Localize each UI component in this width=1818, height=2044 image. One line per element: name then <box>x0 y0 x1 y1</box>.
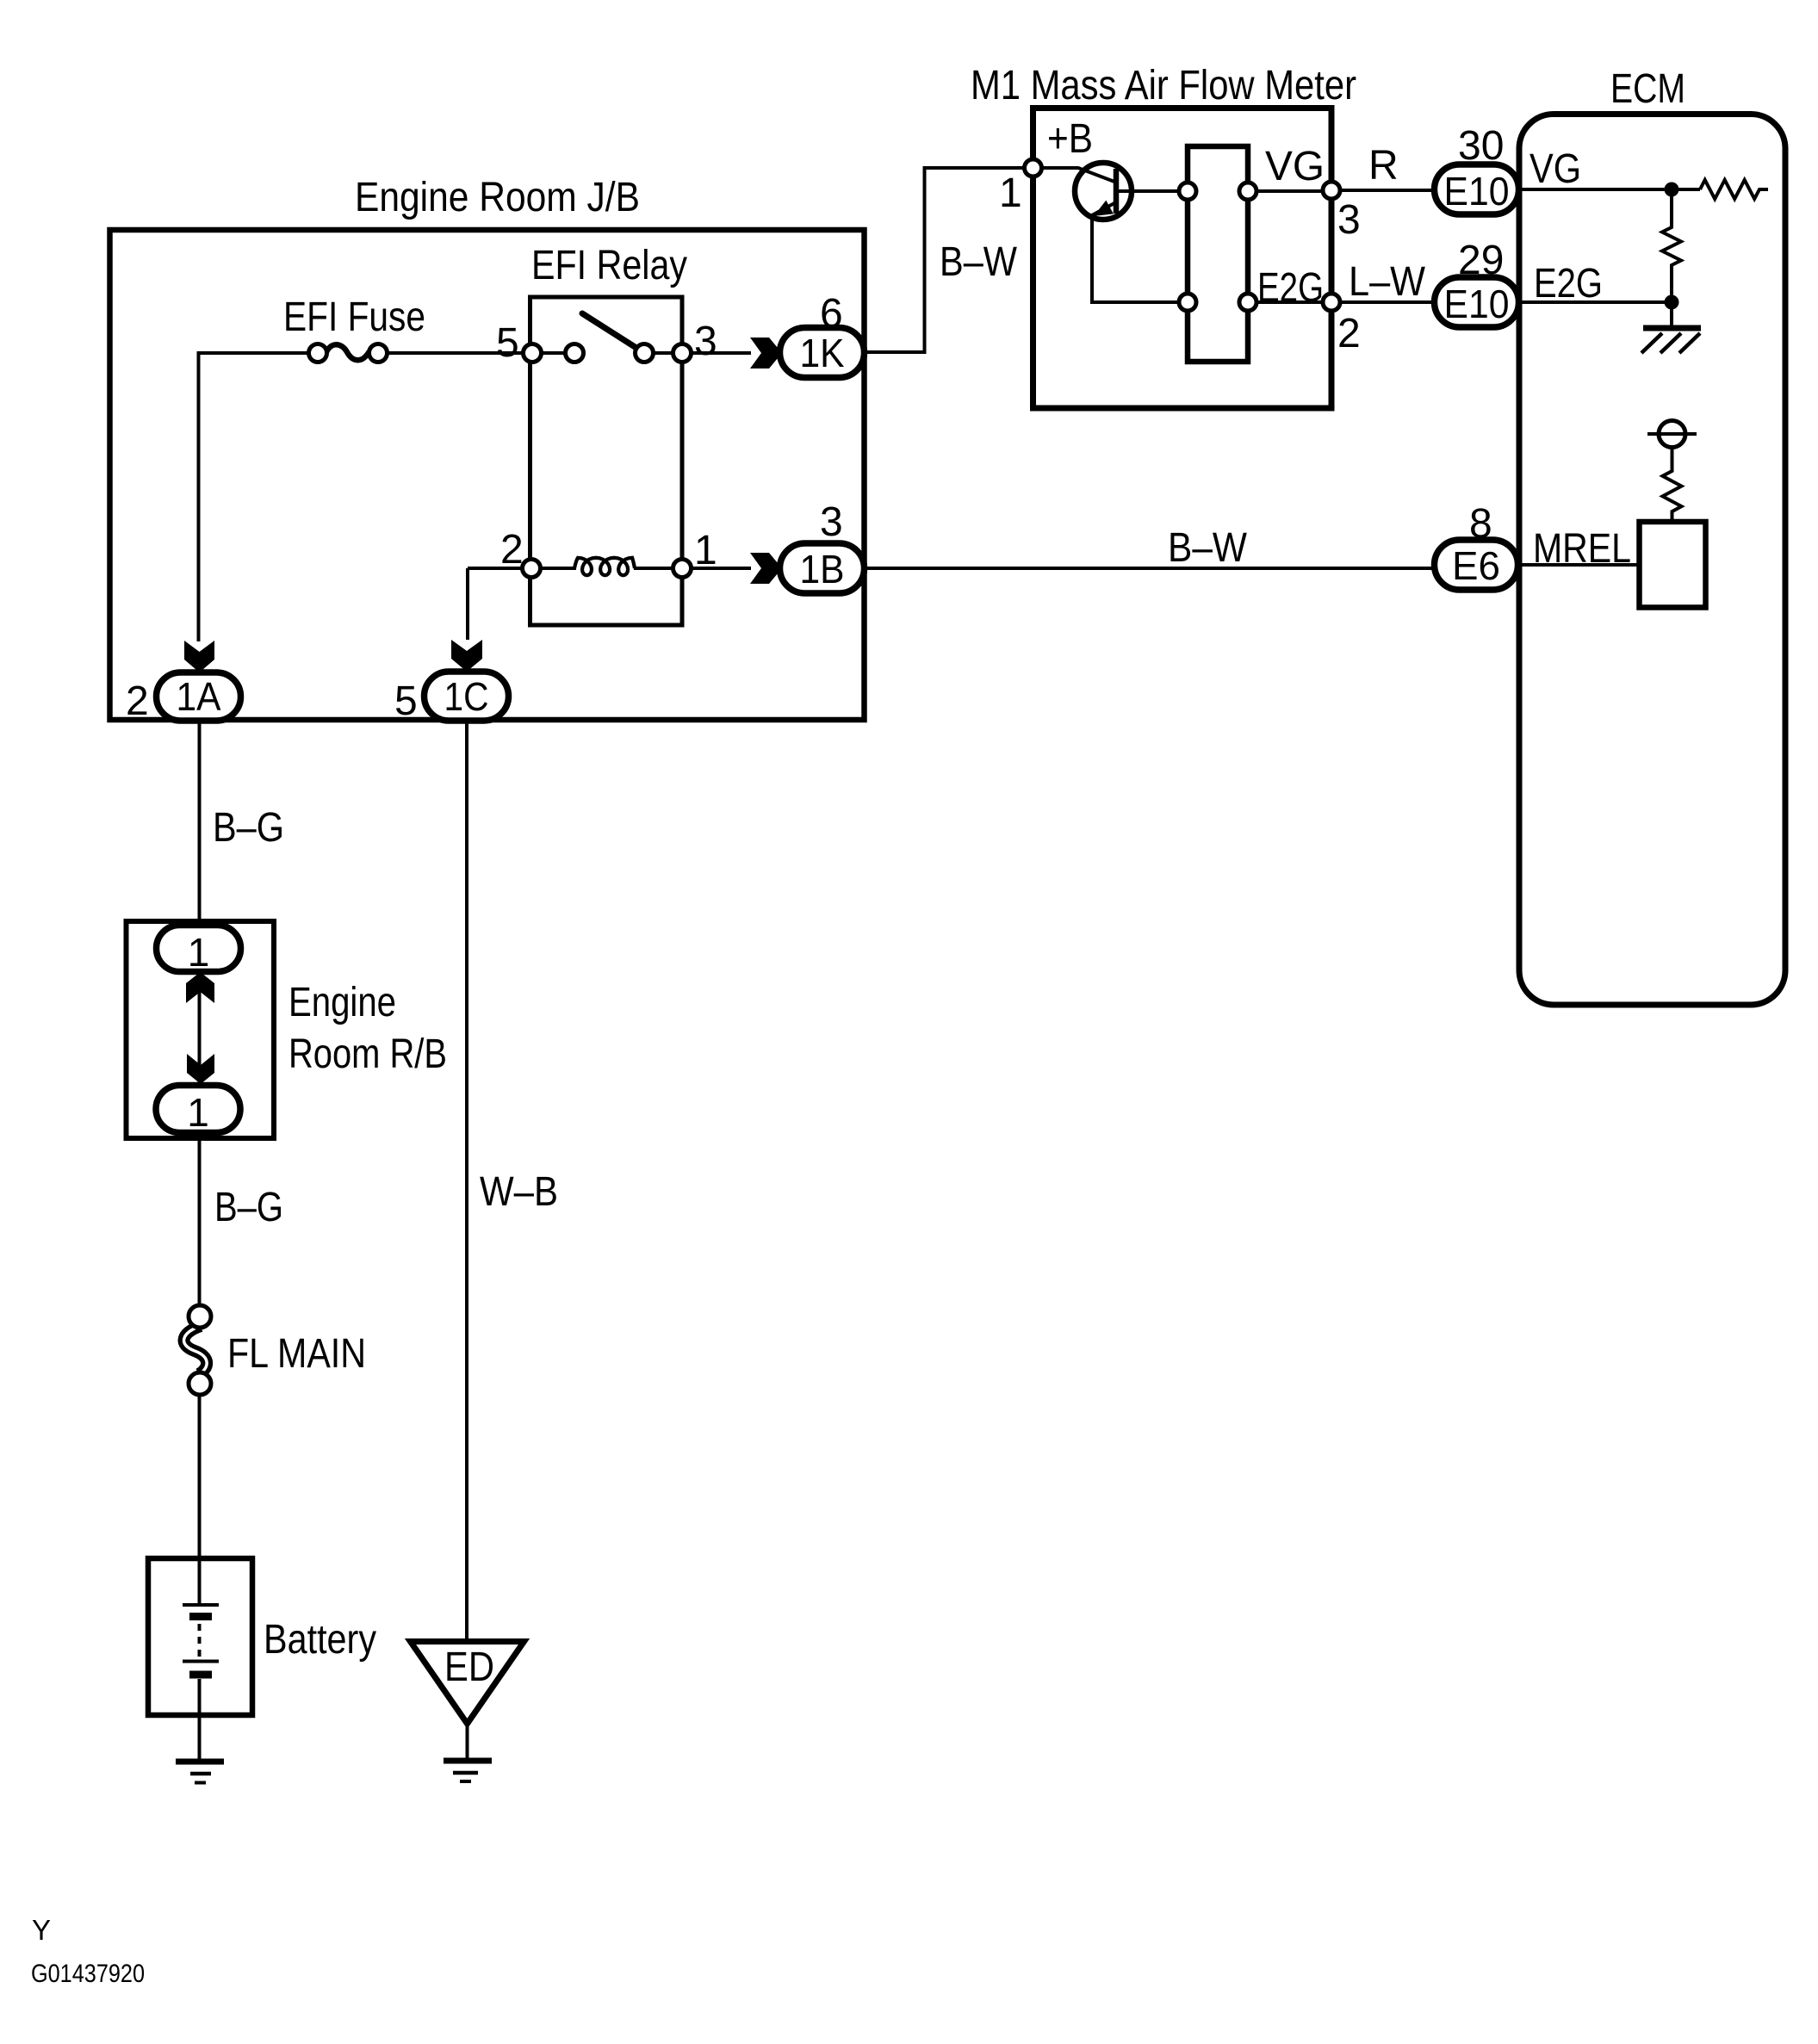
wire: E2G inside ECM <box>1518 300 1672 304</box>
connector E6 <box>1435 540 1518 590</box>
resistor R3 (MREL pull, vertical) <box>1663 448 1682 522</box>
connector 1 (R/B bottom) <box>156 1086 240 1136</box>
svg-text:FL MAIN: FL MAIN <box>227 1331 366 1377</box>
junction node on VG line <box>1665 183 1679 197</box>
transistor Q1 (MAF internal) <box>1041 163 1179 302</box>
svg-text:ECM: ECM <box>1610 66 1685 112</box>
svg-text:Y: Y <box>32 1914 51 1946</box>
svg-text:E10: E10 <box>1444 169 1510 214</box>
connector 1C <box>425 672 509 721</box>
arrow into connector 1B <box>750 553 782 584</box>
MAF +B node circle (pin 1) <box>1025 159 1042 177</box>
svg-text:B–W: B–W <box>1168 525 1248 571</box>
wire: sensing element to VG pin <box>1256 189 1324 193</box>
svg-text:VG: VG <box>1529 146 1581 192</box>
wire: R/B down to FL MAIN <box>198 1138 202 1306</box>
wire: relay coil row <box>468 568 751 640</box>
svg-text:5: 5 <box>496 320 519 366</box>
svg-text:Room R/B: Room R/B <box>289 1031 447 1077</box>
svg-text:M1 Mass Air Flow Meter: M1 Mass Air Flow Meter <box>971 63 1356 108</box>
svg-text:3: 3 <box>820 499 843 545</box>
svg-text:Engine: Engine <box>289 980 396 1025</box>
svg-text:2: 2 <box>126 678 149 724</box>
wire: FL MAIN to battery <box>198 1395 202 1558</box>
junction block box: Engine Room J/B <box>110 175 865 720</box>
arrow down (R/B) <box>187 1054 214 1084</box>
svg-text:L–W: L–W <box>1349 259 1426 305</box>
svg-text:1: 1 <box>694 528 717 573</box>
connector 1K <box>780 328 865 378</box>
svg-text:+B: +B <box>1047 116 1093 162</box>
relay switch blade <box>582 313 639 350</box>
svg-text:W–B: W–B <box>480 1169 558 1215</box>
connector E10 (E2G row) <box>1435 277 1519 327</box>
svg-text:R: R <box>1368 143 1399 189</box>
svg-text:Battery: Battery <box>264 1617 376 1663</box>
svg-text:5: 5 <box>394 678 418 724</box>
fusible link FL MAIN <box>184 1305 366 1395</box>
svg-text:E2G: E2G <box>1534 261 1603 307</box>
relay K1: EFI Relay box <box>531 243 688 625</box>
svg-text:EFI Relay: EFI Relay <box>531 243 687 288</box>
ECM box <box>1519 66 1785 1005</box>
resistor R1 (VG load, horizontal) <box>1700 180 1768 199</box>
wire: E2G to E10 <box>1339 300 1434 304</box>
svg-text:E6: E6 <box>1452 543 1500 588</box>
wire: long B-W from 1B to E6 <box>864 567 1434 570</box>
connector 1B <box>780 543 865 593</box>
relay coil pin circles 2 and 1 <box>523 560 692 578</box>
wire inside R/B <box>198 971 202 1085</box>
wire: sensing element to E2G pin <box>1256 300 1324 304</box>
svg-text:B–W: B–W <box>940 239 1018 285</box>
MAF output pin circles VG / E2G <box>1323 182 1340 311</box>
svg-text:1A: 1A <box>177 674 221 719</box>
wire: relay pin 3 to 1K arrow <box>653 351 751 355</box>
svg-text:1: 1 <box>999 170 1022 216</box>
Engine Room R/B box <box>127 921 448 1138</box>
svg-text:2: 2 <box>500 527 524 573</box>
connector 1 (R/B top) <box>157 926 241 976</box>
svg-text:Engine Room J/B: Engine Room J/B <box>355 175 640 220</box>
connector E10 (VG row) <box>1435 164 1519 214</box>
connector 1A <box>157 672 241 721</box>
svg-text:2: 2 <box>1337 311 1361 356</box>
wire: VG inside ECM <box>1518 188 1700 191</box>
ground (battery) <box>176 1762 224 1783</box>
svg-text:1: 1 <box>187 1090 209 1135</box>
svg-text:3: 3 <box>694 319 717 364</box>
MAF sensing element rectangle <box>1188 146 1248 362</box>
junction node on E2G line <box>1665 295 1679 310</box>
wire: VG to E10 <box>1339 189 1434 192</box>
relay coil L1 <box>574 558 635 575</box>
svg-text:1: 1 <box>188 930 210 975</box>
resistor R2 (VG to E2G, vertical) <box>1662 189 1681 302</box>
relay switch contact circles pins 5 and 3 <box>524 344 692 362</box>
svg-text:3: 3 <box>1337 197 1361 243</box>
arrow into connector 1A <box>184 641 214 672</box>
power symbol (circled bar) <box>1647 421 1697 448</box>
arrow into connector 1K <box>750 338 782 369</box>
svg-text:B–G: B–G <box>213 805 284 851</box>
svg-text:E2G: E2G <box>1257 265 1324 311</box>
wire: B-W riser from 1K to MAF +B <box>864 168 1025 352</box>
wire: 1A down to Engine Room R/B <box>198 721 202 921</box>
fuse F1: EFI Fuse <box>283 294 425 362</box>
svg-text:VG: VG <box>1265 144 1325 189</box>
arrow up (R/B) <box>186 972 214 1003</box>
svg-text:1C: 1C <box>444 674 489 719</box>
svg-text:EFI Fuse: EFI Fuse <box>283 294 425 340</box>
svg-text:ED: ED <box>444 1644 494 1690</box>
svg-text:G01437920: G01437920 <box>31 1960 145 1988</box>
svg-text:1K: 1K <box>800 331 845 375</box>
ground (ED) <box>444 1761 492 1781</box>
svg-text:B–G: B–G <box>214 1185 283 1230</box>
wire: 1C down to ED <box>465 721 468 1641</box>
ground triangle ED <box>411 1642 524 1761</box>
MAF sensing element pin circles <box>1179 183 1256 311</box>
MAF box: M1 Mass Air Flow Meter <box>971 63 1356 408</box>
svg-text:1B: 1B <box>800 547 845 592</box>
wire: fuse feed from 1A riser <box>199 353 309 641</box>
ground (ECM internal chassis) <box>1641 302 1701 353</box>
wire: E6 to MREL block <box>1518 563 1639 567</box>
MREL driver block <box>1640 522 1706 608</box>
svg-text:E10: E10 <box>1444 282 1510 326</box>
wire: fuse to relay pin 5 <box>387 351 566 355</box>
battery B1 <box>148 1558 376 1760</box>
arrow into connector 1C <box>451 640 482 672</box>
